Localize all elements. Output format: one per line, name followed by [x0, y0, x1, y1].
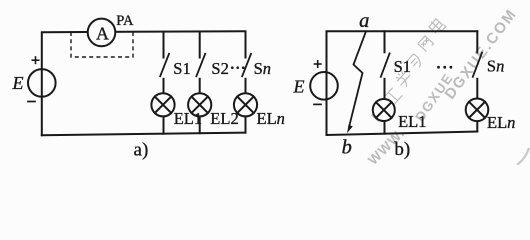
- svg-text:a): a): [134, 139, 149, 160]
- svg-text:S2: S2: [211, 59, 228, 78]
- svg-text:PA: PA: [116, 13, 134, 29]
- svg-text:EL1: EL1: [398, 112, 426, 131]
- svg-text:b): b): [394, 139, 410, 160]
- svg-text:a: a: [359, 10, 369, 32]
- svg-text:S1: S1: [173, 59, 190, 78]
- svg-text:EL2: EL2: [210, 109, 238, 128]
- svg-text:S1: S1: [394, 57, 411, 76]
- svg-text:ELn: ELn: [257, 109, 285, 128]
- svg-text:Sn: Sn: [254, 59, 271, 78]
- svg-text:b: b: [342, 137, 352, 159]
- svg-text:ELn: ELn: [487, 113, 515, 132]
- svg-text:Sn: Sn: [487, 57, 504, 76]
- svg-text:A: A: [96, 23, 109, 43]
- svg-text:EL1: EL1: [174, 109, 202, 128]
- svg-text:E: E: [293, 77, 305, 97]
- svg-text:E: E: [12, 73, 24, 93]
